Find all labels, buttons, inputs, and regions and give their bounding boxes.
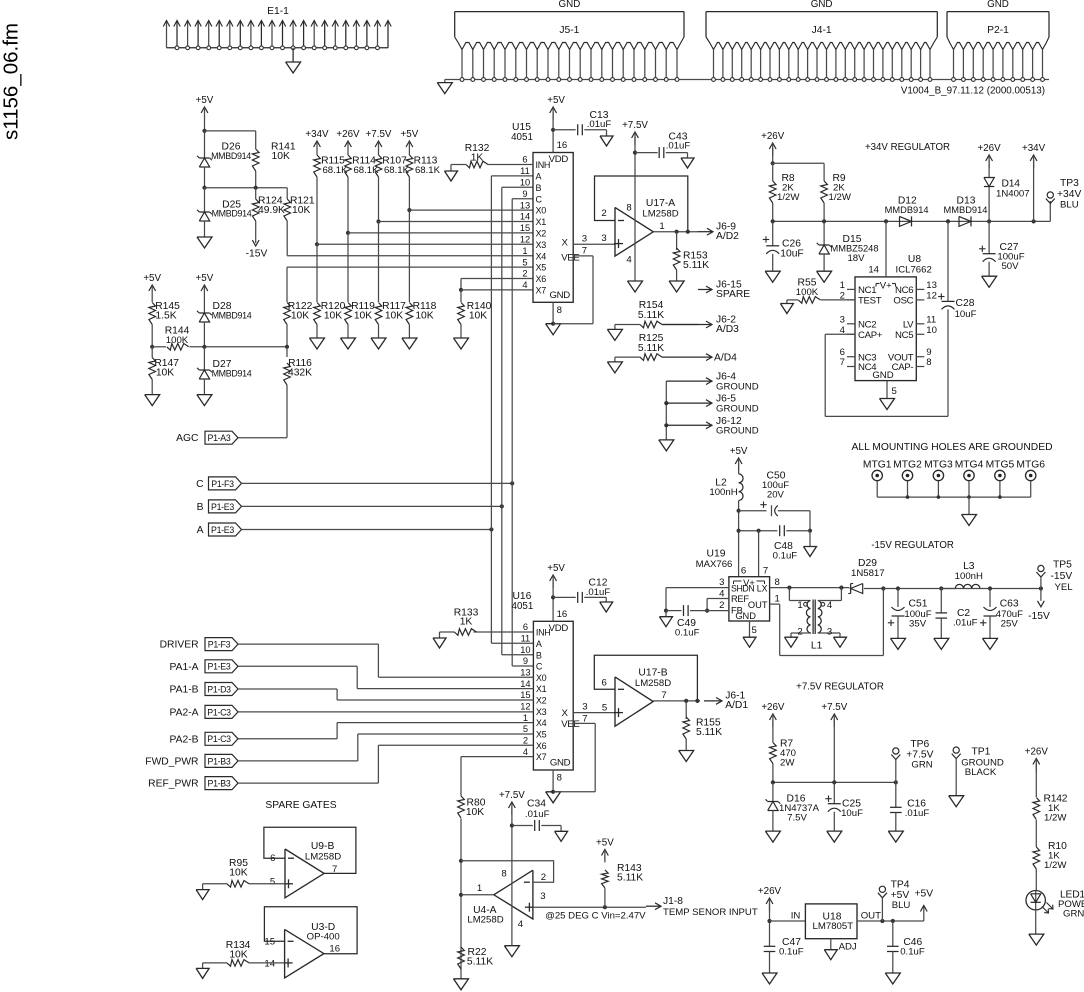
svg-text:1/2W: 1/2W [1044, 813, 1067, 824]
svg-text:.01uF: .01uF [586, 587, 611, 598]
svg-text:6: 6 [602, 677, 607, 688]
svg-text:MMBD914: MMBD914 [212, 209, 252, 219]
svg-text:GRN: GRN [1063, 909, 1084, 920]
svg-text:+26V: +26V [1025, 747, 1049, 758]
svg-text:9: 9 [523, 656, 528, 666]
svg-text:1: 1 [659, 221, 664, 232]
svg-text:MMBD914: MMBD914 [944, 205, 988, 215]
svg-text:7: 7 [582, 245, 587, 256]
svg-text:8: 8 [501, 869, 506, 880]
svg-text:68.1K: 68.1K [322, 165, 348, 176]
svg-text:5: 5 [892, 386, 897, 397]
svg-text:4: 4 [626, 255, 632, 266]
svg-text:50V: 50V [1001, 261, 1019, 272]
svg-text:10K: 10K [385, 311, 403, 322]
svg-text:TEMP SENOR INPUT: TEMP SENOR INPUT [663, 907, 758, 918]
svg-text:3: 3 [540, 891, 545, 902]
svg-text:MMBD914: MMBD914 [211, 151, 251, 161]
svg-text:X6: X6 [536, 274, 547, 284]
svg-text:.01uF: .01uF [953, 618, 978, 629]
svg-text:9: 9 [522, 189, 527, 199]
svg-text:U17-B: U17-B [638, 668, 667, 679]
svg-text:U17-A: U17-A [646, 198, 675, 209]
svg-text:-15V: -15V [246, 249, 268, 260]
svg-text:.01uF: .01uF [905, 808, 930, 819]
svg-text:1: 1 [523, 713, 528, 723]
svg-text:.01uF: .01uF [666, 141, 691, 152]
svg-text:15: 15 [264, 937, 275, 948]
svg-text:L1: L1 [811, 641, 823, 652]
svg-text:1N5817: 1N5817 [851, 568, 885, 579]
svg-text:10uF: 10uF [780, 249, 803, 260]
svg-text:C34: C34 [527, 798, 546, 809]
svg-text:GND: GND [550, 758, 571, 769]
svg-text:GND: GND [735, 611, 756, 621]
svg-text:10K: 10K [292, 205, 310, 216]
svg-text:+34V: +34V [1022, 143, 1046, 154]
svg-text:+26V: +26V [761, 702, 785, 713]
svg-text:68.1K: 68.1K [384, 165, 410, 176]
svg-text:+5V: +5V [914, 889, 933, 900]
svg-text:14: 14 [264, 959, 275, 970]
svg-text:14: 14 [868, 264, 879, 275]
svg-text:6: 6 [270, 853, 275, 864]
svg-text:1: 1 [522, 246, 527, 256]
svg-text:16: 16 [329, 944, 340, 955]
svg-text:MTG2: MTG2 [893, 459, 922, 470]
svg-text:7: 7 [582, 714, 587, 725]
svg-text:6: 6 [522, 155, 527, 165]
svg-text:10: 10 [926, 325, 937, 336]
svg-text:+5V: +5V [547, 563, 565, 574]
svg-text:1/2W: 1/2W [1044, 860, 1067, 871]
svg-text:10K: 10K [229, 867, 247, 878]
svg-text:3: 3 [582, 702, 587, 713]
svg-text:X6: X6 [536, 741, 547, 751]
svg-text:+34V: +34V [305, 129, 329, 140]
svg-text:P1-D3: P1-D3 [207, 684, 231, 694]
svg-text:1: 1 [797, 600, 802, 611]
svg-text:GROUND: GROUND [716, 426, 759, 437]
svg-text:A/D2: A/D2 [716, 231, 739, 242]
svg-text:LV: LV [903, 319, 914, 330]
svg-text:6: 6 [523, 622, 528, 632]
svg-text:5: 5 [523, 724, 528, 734]
svg-text:5.11K: 5.11K [638, 343, 664, 354]
svg-text:X4: X4 [536, 718, 547, 728]
svg-text:P1-C3: P1-C3 [207, 734, 231, 744]
svg-text:7: 7 [763, 566, 768, 577]
svg-text:25V: 25V [1001, 619, 1019, 630]
svg-text:VEE: VEE [561, 719, 579, 730]
svg-text:BLACK: BLACK [965, 767, 997, 778]
svg-text:+7.5V: +7.5V [622, 120, 648, 131]
svg-text:MTG5: MTG5 [986, 459, 1015, 470]
svg-text:13: 13 [520, 200, 530, 210]
svg-text:B: B [536, 650, 542, 660]
svg-text:NC5: NC5 [895, 330, 913, 341]
svg-text:OSC: OSC [893, 296, 913, 307]
svg-text:1: 1 [840, 280, 845, 291]
svg-text:X7: X7 [536, 286, 547, 296]
svg-text:LM258D: LM258D [467, 915, 503, 926]
svg-text:68.1K: 68.1K [415, 165, 441, 176]
svg-text:ICL7662: ICL7662 [896, 264, 932, 275]
svg-text:12: 12 [520, 702, 530, 712]
svg-text:X0: X0 [536, 673, 547, 683]
svg-text:5.11K: 5.11K [617, 873, 643, 884]
svg-text:5.11K: 5.11K [696, 727, 722, 738]
svg-text:P2-1: P2-1 [987, 25, 1009, 36]
svg-text:OUT: OUT [861, 911, 881, 922]
svg-text:OUT: OUT [748, 600, 768, 610]
svg-text:X5: X5 [536, 263, 547, 273]
svg-text:A: A [536, 639, 542, 649]
svg-text:4: 4 [719, 589, 725, 600]
svg-text:B: B [197, 502, 204, 513]
svg-text:TP4: TP4 [891, 880, 910, 891]
svg-text:7.5V: 7.5V [787, 813, 807, 824]
svg-text:DRIVER: DRIVER [160, 640, 199, 651]
svg-text:7: 7 [840, 357, 845, 368]
svg-text:ALL MOUNTING HOLES ARE GRO: ALL MOUNTING HOLES ARE GROUNDED [851, 442, 1052, 453]
svg-text:0.1uF: 0.1uF [675, 628, 700, 639]
svg-text:1/2W: 1/2W [829, 192, 852, 203]
svg-text:11: 11 [521, 634, 531, 644]
svg-text:8: 8 [926, 357, 931, 368]
svg-text:P1-A3: P1-A3 [208, 433, 231, 443]
svg-text:4: 4 [522, 280, 527, 290]
svg-text:16: 16 [557, 609, 568, 620]
svg-text:5.11K: 5.11K [683, 260, 709, 271]
svg-text:X1: X1 [536, 684, 547, 694]
svg-text:X7: X7 [536, 752, 547, 762]
svg-text:LM258D: LM258D [635, 678, 671, 689]
svg-text:15: 15 [520, 690, 530, 700]
svg-text:18V: 18V [847, 253, 865, 264]
svg-text:12: 12 [520, 235, 530, 245]
svg-text:OP-400: OP-400 [307, 932, 340, 943]
svg-text:P1-E3: P1-E3 [211, 525, 234, 535]
svg-text:C51: C51 [909, 599, 928, 610]
svg-text:1: 1 [477, 883, 482, 894]
svg-text:5: 5 [522, 257, 527, 267]
svg-text:VDD: VDD [549, 154, 569, 165]
svg-text:PA2-B: PA2-B [170, 734, 199, 745]
svg-text:SHDN: SHDN [731, 583, 754, 593]
svg-text:2W: 2W [780, 758, 795, 769]
svg-text:X3: X3 [536, 240, 547, 250]
svg-text:MTG6: MTG6 [1016, 459, 1045, 470]
svg-text:+5V: +5V [196, 95, 214, 106]
svg-text:X: X [561, 238, 568, 249]
svg-text:J5-1: J5-1 [559, 25, 579, 36]
svg-text:C28: C28 [956, 298, 975, 309]
svg-text:2: 2 [541, 872, 546, 883]
svg-text:MTG1: MTG1 [863, 459, 892, 470]
svg-text:C: C [536, 662, 543, 672]
svg-text:VDD: VDD [549, 623, 569, 634]
svg-text:BLU: BLU [892, 900, 911, 911]
svg-text:+26V: +26V [336, 129, 360, 140]
svg-text:ADJ: ADJ [839, 941, 857, 952]
svg-text:A/D3: A/D3 [716, 324, 739, 335]
svg-text:4051: 4051 [512, 601, 534, 612]
svg-text:MAX766: MAX766 [696, 559, 733, 570]
svg-text:A: A [536, 172, 542, 182]
svg-text:X: X [561, 708, 568, 719]
svg-text:MMBD914: MMBD914 [212, 311, 252, 321]
svg-text:+5V: +5V [196, 273, 214, 284]
svg-text:13: 13 [926, 280, 937, 291]
svg-text:8: 8 [626, 203, 631, 214]
svg-text:4: 4 [523, 747, 528, 757]
svg-text:LM7805T: LM7805T [813, 921, 854, 932]
svg-text:+34V REGULATOR: +34V REGULATOR [865, 142, 950, 153]
svg-text:A: A [197, 525, 204, 536]
svg-text:4: 4 [827, 600, 833, 611]
svg-text:GND: GND [550, 290, 571, 301]
svg-text:2: 2 [522, 269, 527, 279]
svg-text:10: 10 [520, 178, 530, 188]
svg-text:V+: V+ [880, 281, 892, 292]
svg-text:PA1-A: PA1-A [170, 662, 199, 673]
svg-text:8: 8 [557, 305, 562, 316]
svg-text:-15V REGULATOR: -15V REGULATOR [871, 540, 954, 551]
svg-text:NC2: NC2 [858, 319, 876, 330]
svg-text:10uF: 10uF [955, 309, 977, 320]
svg-text:3: 3 [827, 627, 832, 638]
svg-text:1K: 1K [471, 153, 484, 164]
svg-text:49.9K: 49.9K [258, 205, 285, 216]
svg-text:X5: X5 [536, 730, 547, 740]
svg-text:0.1uF: 0.1uF [773, 551, 798, 562]
svg-text:3: 3 [719, 577, 724, 588]
svg-text:LX: LX [757, 583, 768, 593]
svg-text:5: 5 [602, 702, 607, 713]
svg-text:X3: X3 [536, 707, 547, 717]
svg-text:P1-B3: P1-B3 [208, 779, 231, 789]
svg-text:10: 10 [520, 645, 530, 655]
svg-text:X0: X0 [536, 206, 547, 216]
svg-text:CAP-: CAP- [892, 362, 914, 373]
svg-text:P1-B3: P1-B3 [208, 756, 231, 766]
svg-text:YEL: YEL [1055, 582, 1074, 593]
svg-text:AGC: AGC [176, 433, 199, 444]
svg-text:10K: 10K [156, 368, 174, 379]
svg-text:-15V: -15V [1028, 611, 1050, 622]
svg-text:P1-E3: P1-E3 [208, 662, 231, 672]
svg-text:P1-C3: P1-C3 [207, 707, 231, 717]
svg-text:1: 1 [775, 594, 780, 605]
svg-text:+7.5V: +7.5V [499, 790, 525, 801]
svg-text:s1156_06.fm: s1156_06.fm [0, 23, 23, 140]
svg-text:100K: 100K [796, 287, 819, 298]
svg-text:100K: 100K [166, 335, 189, 346]
svg-text:TP5: TP5 [1053, 560, 1072, 571]
svg-text:10uF: 10uF [841, 808, 863, 819]
svg-text:C: C [536, 194, 543, 204]
svg-text:+34V: +34V [1057, 189, 1081, 200]
svg-text:B: B [536, 183, 542, 193]
svg-text:3: 3 [582, 233, 587, 244]
svg-text:GROUND: GROUND [716, 381, 759, 392]
svg-text:J1-8: J1-8 [663, 896, 683, 907]
svg-text:PA1-B: PA1-B [170, 685, 199, 696]
svg-text:LM258D: LM258D [305, 851, 341, 862]
svg-text:8: 8 [775, 577, 780, 588]
svg-text:NC1: NC1 [858, 285, 876, 296]
svg-text:+26V: +26V [761, 131, 785, 142]
svg-text:U19: U19 [707, 549, 726, 560]
svg-text:E1-1: E1-1 [267, 6, 289, 17]
svg-text:GND: GND [872, 370, 893, 381]
svg-text:14: 14 [520, 679, 530, 689]
svg-text:3: 3 [601, 233, 606, 244]
svg-text:REF_PWR: REF_PWR [148, 779, 198, 790]
svg-text:GND: GND [559, 0, 581, 10]
svg-text:BLU: BLU [1060, 200, 1079, 211]
svg-text:4: 4 [518, 919, 524, 930]
svg-text:GRN: GRN [911, 759, 932, 770]
svg-text:11: 11 [926, 314, 936, 325]
svg-text:15: 15 [520, 223, 530, 233]
svg-text:3: 3 [840, 314, 845, 325]
svg-text:10K: 10K [415, 311, 433, 322]
svg-text:10K: 10K [272, 151, 290, 162]
svg-text:5.11K: 5.11K [638, 310, 664, 321]
svg-text:432K: 432K [288, 368, 312, 379]
svg-text:A/D4: A/D4 [714, 352, 737, 363]
svg-text:MTG3: MTG3 [924, 459, 953, 470]
svg-text:P1-F3: P1-F3 [211, 479, 234, 489]
svg-text:SPARE: SPARE [716, 289, 750, 300]
svg-text:+5V: +5V [143, 273, 161, 284]
svg-text:V1004_B_97.11.12 (2000.00513): V1004_B_97.11.12 (2000.00513) [901, 86, 1045, 97]
svg-text:A/D1: A/D1 [725, 700, 748, 711]
svg-text:MMDB914: MMDB914 [885, 205, 929, 215]
svg-text:+5V: +5V [596, 838, 614, 849]
svg-text:PA2-A: PA2-A [170, 707, 199, 718]
svg-text:J4-1: J4-1 [812, 25, 832, 36]
svg-text:GROUND: GROUND [716, 404, 759, 415]
svg-text:2: 2 [797, 627, 802, 638]
svg-text:0.1uF: 0.1uF [900, 946, 925, 957]
svg-text:13: 13 [520, 668, 530, 678]
svg-text:10K: 10K [324, 311, 342, 322]
svg-text:14: 14 [520, 212, 530, 222]
svg-text:4051: 4051 [511, 132, 533, 143]
svg-text:C: C [196, 479, 204, 490]
svg-text:TEST: TEST [858, 296, 882, 307]
svg-text:X2: X2 [536, 229, 547, 239]
svg-text:CAP+: CAP+ [858, 330, 883, 341]
svg-text:11: 11 [520, 166, 530, 176]
svg-text:X2: X2 [536, 696, 547, 706]
svg-text:IN: IN [791, 911, 801, 922]
svg-text:@25 DEG C Vin=2.47V: @25 DEG C Vin=2.47V [545, 910, 646, 921]
svg-text:10K: 10K [466, 807, 484, 818]
svg-text:5: 5 [270, 877, 275, 888]
svg-text:5.11K: 5.11K [467, 956, 493, 967]
svg-text:+7.5V: +7.5V [366, 129, 392, 140]
svg-text:LM258D: LM258D [642, 209, 678, 220]
svg-text:35V: 35V [909, 619, 927, 630]
svg-text:+26V: +26V [758, 886, 782, 897]
svg-text:7: 7 [332, 864, 337, 875]
svg-text:1/2W: 1/2W [777, 192, 800, 203]
svg-text:VEE: VEE [561, 253, 579, 264]
svg-text:P1-E3: P1-E3 [211, 502, 234, 512]
svg-text:FWD_PWR: FWD_PWR [145, 756, 198, 767]
svg-text:1.5K: 1.5K [155, 311, 176, 322]
svg-text:+5V: +5V [730, 446, 748, 457]
svg-text:MMBD914: MMBD914 [212, 369, 252, 379]
svg-text:8: 8 [557, 773, 562, 784]
svg-text:GND: GND [811, 0, 833, 10]
svg-text:+5V: +5V [401, 129, 419, 140]
svg-text:1K: 1K [460, 617, 473, 628]
svg-text:SPARE GATES: SPARE GATES [265, 800, 336, 811]
svg-text:0.1uF: 0.1uF [779, 946, 804, 957]
svg-text:P1-F3: P1-F3 [208, 640, 231, 650]
svg-text:GND: GND [987, 0, 1009, 10]
svg-text:+26V: +26V [978, 143, 1002, 154]
svg-text:TP1: TP1 [972, 747, 991, 758]
svg-text:NC6: NC6 [895, 285, 913, 296]
svg-text:X4: X4 [536, 251, 547, 261]
svg-text:C63: C63 [1000, 599, 1019, 610]
svg-text:REF: REF [731, 594, 749, 604]
svg-text:12: 12 [926, 290, 937, 301]
svg-text:2: 2 [523, 736, 528, 746]
svg-text:20V: 20V [767, 489, 785, 500]
svg-text:+7.5V REGULATOR: +7.5V REGULATOR [796, 682, 884, 693]
svg-text:1N4007: 1N4007 [996, 189, 1030, 200]
svg-text:X1: X1 [536, 217, 547, 227]
svg-text:TP6: TP6 [910, 739, 929, 750]
svg-text:7: 7 [661, 690, 666, 701]
svg-text:100nH: 100nH [709, 487, 737, 498]
svg-text:16: 16 [557, 140, 568, 151]
svg-text:2: 2 [601, 208, 606, 219]
svg-text:10K: 10K [354, 311, 372, 322]
svg-text:.01uF: .01uF [525, 809, 550, 820]
svg-text:MMBZ5248: MMBZ5248 [830, 244, 878, 254]
svg-text:-15V: -15V [1051, 571, 1073, 582]
svg-text:+5V: +5V [547, 95, 565, 106]
svg-text:10K: 10K [469, 311, 487, 322]
svg-text:TP3: TP3 [1060, 178, 1079, 189]
svg-text:100nH: 100nH [955, 571, 983, 582]
svg-text:2: 2 [719, 600, 724, 611]
svg-text:6: 6 [741, 566, 746, 577]
svg-text:5: 5 [752, 625, 757, 636]
svg-text:.01uF: .01uF [587, 119, 612, 130]
svg-text:MTG4: MTG4 [955, 459, 984, 470]
svg-text:10K: 10K [291, 311, 309, 322]
svg-text:+7.5V: +7.5V [821, 702, 847, 713]
